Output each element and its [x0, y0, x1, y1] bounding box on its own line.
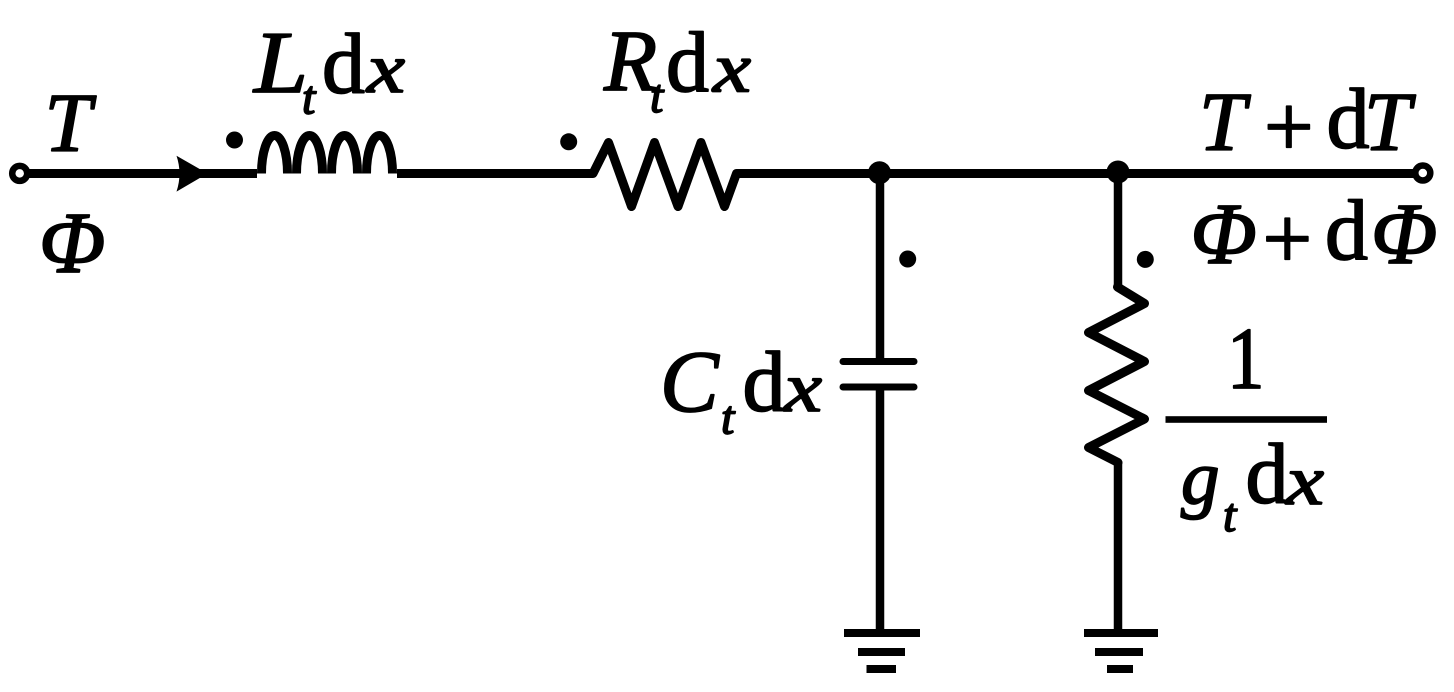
shunt branch lower wire [1114, 463, 1123, 633]
svg-text:x: x [1285, 443, 1324, 520]
svg-text:t: t [650, 70, 665, 123]
arrow (direction of T, Phi) [177, 156, 208, 192]
terminal right (output port) [1415, 166, 1430, 181]
svg-text:x: x [366, 31, 405, 108]
capacitor branch upper wire [876, 174, 885, 360]
svg-text:d: d [1325, 182, 1368, 278]
svg-text:C: C [660, 334, 720, 431]
svg-text:T: T [1364, 76, 1416, 169]
label T + dT (output temperature) [1199, 71, 1416, 177]
dot near capacitor [899, 251, 916, 268]
capacitor Ct dx plates [843, 362, 914, 388]
svg-text:d: d [743, 334, 786, 430]
svg-text:g: g [1181, 436, 1220, 520]
wire input segment [25, 169, 257, 178]
svg-text:+: + [1264, 79, 1314, 176]
svg-text:Φ: Φ [1371, 185, 1437, 282]
dot near shunt resistor [1137, 251, 1154, 268]
svg-text:T: T [1199, 76, 1251, 169]
wire inductor to resistor [397, 169, 593, 178]
svg-text:t: t [721, 392, 736, 445]
label fraction denominator gt dx [1181, 426, 1324, 543]
svg-text:t: t [302, 72, 317, 125]
svg-text:d: d [322, 16, 365, 112]
node 2 junction dot [1107, 161, 1130, 184]
inductor Lt dx (4 loops) [262, 136, 393, 174]
label Rt dx [603, 12, 751, 123]
wire resistor to node 1 [737, 169, 881, 178]
label Phi + dPhi (output flux) [1191, 182, 1438, 288]
wire node 1 to node 2 [880, 169, 1118, 178]
dot near inductor [226, 132, 243, 149]
fraction bar [1166, 416, 1328, 423]
svg-text:L: L [252, 15, 308, 112]
terminal left (input port) [12, 166, 27, 181]
label Lt dx [252, 15, 405, 125]
svg-text:d: d [1246, 426, 1289, 522]
svg-text:d: d [666, 14, 709, 110]
svg-text:+: + [1263, 191, 1313, 288]
ground left [844, 633, 920, 669]
resistor 1/(gt dx) vertical zigzag [1089, 287, 1145, 463]
svg-text:x: x [712, 31, 751, 108]
svg-text:x: x [783, 350, 822, 427]
label Ct dx [660, 334, 822, 445]
svg-text:T: T [45, 77, 97, 170]
node 1 junction dot [868, 161, 891, 184]
wire node 2 to output terminal [1118, 169, 1416, 178]
svg-text:Φ: Φ [39, 194, 105, 291]
ground right [1084, 633, 1158, 669]
shunt branch upper wire [1114, 174, 1123, 288]
capacitor branch lower wire [876, 387, 885, 632]
resistor Rt dx (zigzag) [593, 143, 737, 207]
svg-text:Φ: Φ [1191, 185, 1257, 282]
svg-text:t: t [1223, 489, 1238, 542]
svg-text:1: 1 [1227, 311, 1265, 408]
dot near resistor Rt [560, 133, 577, 150]
